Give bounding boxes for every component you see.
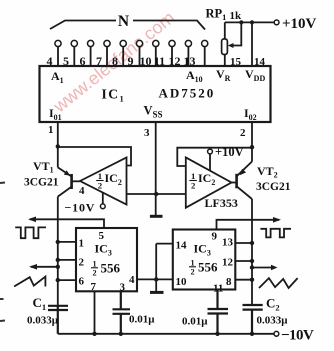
svg-text:7: 7	[91, 281, 97, 293]
svg-text:N: N	[118, 13, 129, 30]
svg-text:A10: A10	[186, 68, 203, 84]
svg-text:1k: 1k	[230, 10, 243, 22]
label 1/2 right opamp	[189, 171, 196, 190]
svg-text:IC2: IC2	[198, 171, 215, 187]
capacitor 0.01u right	[208, 290, 229, 336]
svg-text:10: 10	[176, 276, 188, 288]
svg-text:IC2: IC2	[105, 171, 122, 187]
svg-text:2: 2	[79, 257, 85, 269]
capacitor 0.01u left	[113, 291, 131, 336]
wire square out left with arrow	[28, 217, 104, 229]
op-amp IC2 right half LF353	[186, 157, 232, 207]
wire pin4 to pin10	[137, 277, 173, 281]
svg-text:2: 2	[92, 268, 96, 277]
wire -10V rail bottom	[58, 332, 274, 336]
ground 1	[150, 215, 163, 218]
wire saw out left with arrow	[29, 264, 58, 270]
wire input stubs	[58, 47, 205, 66]
wire I02 column	[250, 122, 254, 162]
waveform square left	[15, 227, 46, 238]
svg-text:3CG21: 3CG21	[256, 181, 291, 193]
svg-text:IC3: IC3	[194, 242, 211, 258]
svg-text:LF353: LF353	[205, 196, 238, 210]
op-amp U3 IC3 right 556 box	[173, 230, 236, 290]
waveform square right	[260, 229, 291, 238]
svg-text:A1: A1	[51, 69, 64, 85]
svg-text:−10V: −10V	[281, 327, 314, 343]
svg-text:4: 4	[129, 274, 135, 286]
svg-text:0.033μ: 0.033μ	[257, 315, 289, 327]
wire right column lower	[250, 199, 254, 305]
node -10V terminal mid	[100, 193, 105, 209]
svg-text:C2: C2	[266, 296, 280, 313]
svg-text:IC1: IC1	[102, 86, 126, 103]
svg-text:0.01μ: 0.01μ	[182, 316, 208, 328]
capacitor C1	[48, 305, 68, 334]
node +10V terminal mid	[208, 149, 213, 171]
svg-text:1: 1	[79, 238, 85, 250]
svg-text:0.01μ: 0.01μ	[129, 314, 155, 326]
label 1/2 556 left	[91, 260, 121, 278]
svg-text:VT2: VT2	[257, 164, 278, 180]
svg-text:556: 556	[101, 261, 121, 276]
wire stubs to IC3 left	[58, 242, 76, 280]
svg-text:1: 1	[48, 124, 54, 136]
waveform sawtooth left	[14, 277, 45, 287]
svg-text:14: 14	[176, 240, 188, 252]
label 1/2 556 right	[189, 259, 218, 277]
wire +10V rail top	[225, 20, 275, 66]
wire pin7 down	[92, 291, 96, 336]
node +10V terminal top right	[274, 20, 279, 25]
wire feedback right	[177, 148, 252, 166]
label 1/2 left opamp	[96, 171, 103, 190]
watermark www.elecfans.com	[49, 7, 179, 116]
capacitor C2	[243, 305, 263, 334]
wire stubs IC3 right	[235, 243, 252, 280]
wire mid ground column	[156, 244, 173, 292]
wire opamp left output to node	[127, 192, 186, 196]
svg-text:13: 13	[222, 237, 234, 249]
op-amp U1 IC1 AD7520 box	[40, 66, 271, 122]
svg-text:6: 6	[79, 276, 85, 288]
svg-text:12: 12	[222, 257, 234, 269]
svg-text:2: 2	[191, 181, 196, 191]
svg-text:4: 4	[79, 185, 85, 197]
svg-text:RP1: RP1	[206, 6, 227, 22]
svg-text:C1: C1	[33, 295, 47, 312]
node -10V terminal bottom	[274, 331, 279, 336]
svg-text:VT1: VT1	[33, 159, 54, 175]
svg-text:+10V: +10V	[215, 145, 244, 159]
wire left column lower	[56, 197, 60, 306]
op-amp IC2 left half	[80, 158, 127, 205]
svg-text:9: 9	[212, 231, 218, 243]
svg-text:3: 3	[144, 127, 150, 139]
scan artifact marks left edge	[0, 183, 5, 322]
svg-text:−10V: −10V	[65, 201, 96, 215]
svg-text:VDD: VDD	[245, 67, 265, 83]
wire pin9 up and square out right	[217, 217, 282, 230]
wire feedback left	[58, 147, 131, 166]
svg-text:VSS: VSS	[144, 104, 163, 120]
svg-text:556: 556	[198, 260, 218, 275]
waveform sawtooth right	[259, 278, 298, 288]
svg-text:8: 8	[226, 276, 232, 288]
transistor Q1 VT1	[58, 167, 80, 196]
svg-text:2: 2	[98, 181, 103, 191]
svg-text:2: 2	[190, 267, 194, 276]
transistor Q2 VT2	[232, 162, 253, 200]
wire saw out right with arrow	[252, 265, 278, 271]
svg-text:2: 2	[240, 127, 246, 139]
resistor RP1 1k potentiometer	[222, 22, 242, 66]
wire I01 column	[56, 122, 60, 167]
node input terminal circles pins 4-13	[55, 40, 208, 46]
svg-text:+10V: +10V	[282, 16, 317, 32]
svg-text:VR: VR	[216, 67, 231, 83]
pin numbers 4-13	[47, 54, 196, 68]
ground 2	[150, 291, 164, 294]
wire VSS column	[155, 122, 157, 216]
svg-text:IC3: IC3	[95, 242, 112, 258]
svg-text:0.033μ: 0.033μ	[27, 315, 59, 327]
svg-text:3CG21: 3CG21	[24, 177, 59, 189]
wire bus line N	[50, 21, 205, 30]
svg-text:5: 5	[99, 230, 105, 242]
svg-text:I02: I02	[244, 106, 257, 122]
svg-text:AD7520: AD7520	[159, 86, 216, 101]
op-amp U3 IC3 left 556 box	[76, 228, 137, 291]
